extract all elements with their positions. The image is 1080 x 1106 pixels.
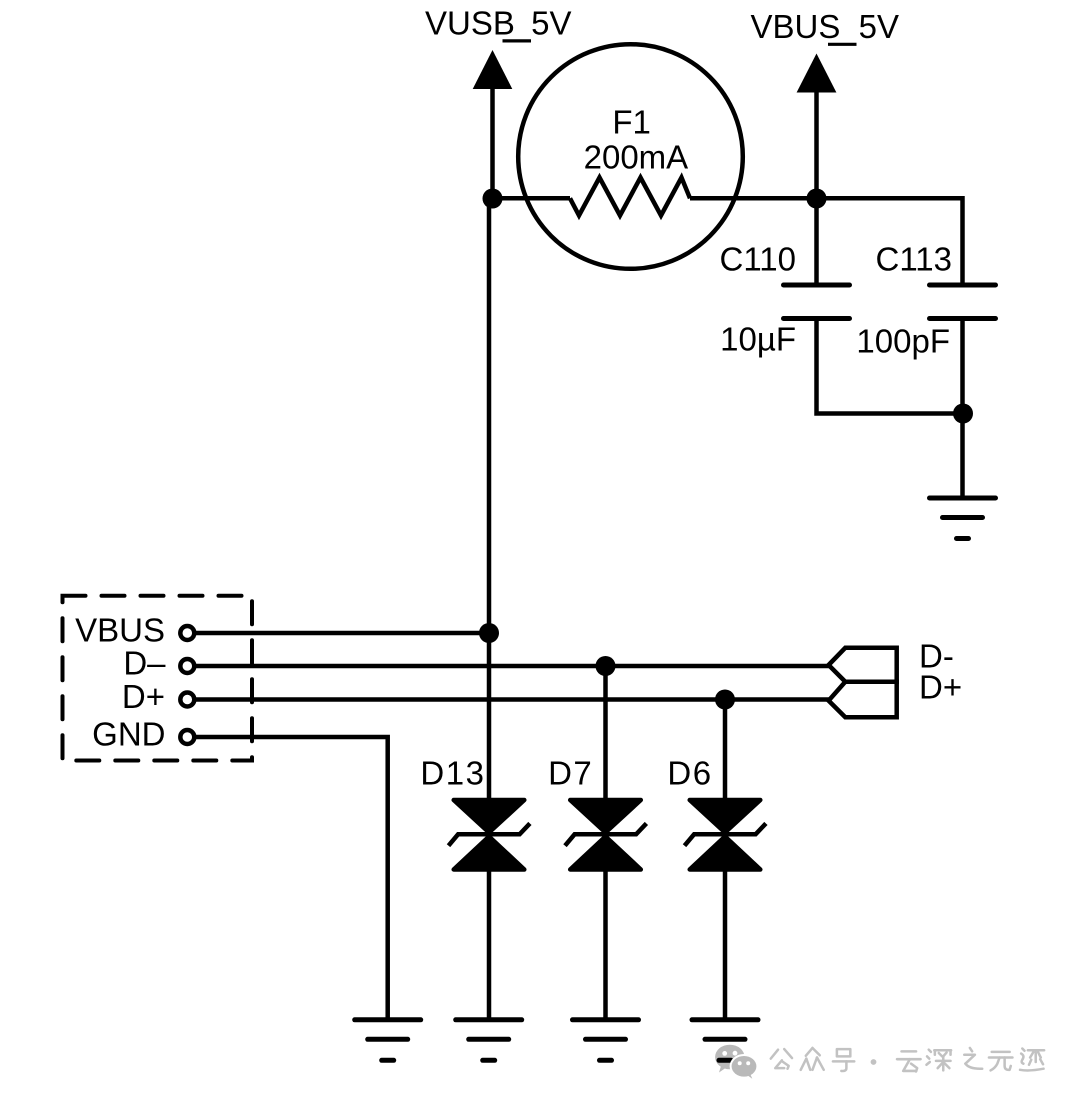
watermark text 公众号 · 云深之无迹 (drawn) [771, 1048, 1044, 1072]
svg-text:D7: D7 [548, 755, 593, 792]
wire D6 stem top [723, 700, 728, 801]
pin circle GND [180, 730, 194, 744]
svg-text:5V: 5V [859, 8, 899, 45]
wire C110 top stub [814, 199, 819, 286]
off-page connector D+ [829, 682, 897, 718]
off-page connector D- [829, 648, 897, 682]
svg-text:D6: D6 [667, 755, 712, 792]
ground D13 [456, 1020, 522, 1061]
wire C113 bottom stub [960, 319, 965, 500]
power arrow VUSB_5V [473, 50, 513, 199]
wire D7 stem bottom [603, 870, 608, 1021]
svg-text:C113: C113 [876, 241, 952, 278]
svg-text:D13: D13 [420, 755, 485, 792]
TVS diode D6 [685, 800, 766, 870]
net label VBUS_5V [751, 8, 900, 45]
wire rail right lead [690, 196, 963, 201]
junction dot C110/C113 bottom node [953, 404, 973, 424]
svg-text:C110: C110 [720, 241, 796, 278]
capacitor C110 [784, 285, 850, 319]
svg-text:VBUS: VBUS [75, 612, 165, 649]
ground under C113 [930, 498, 996, 539]
svg-text:VUSB: VUSB [425, 5, 515, 42]
wire D13 stem bottom [487, 870, 492, 1021]
svg-text:100pF: 100pF [856, 322, 950, 359]
pin circle D- [180, 659, 194, 673]
watermark wechat small bubble [730, 1054, 759, 1081]
ground D7 [573, 1020, 639, 1061]
connector dashed box [63, 596, 253, 761]
svg-text:5V: 5V [531, 5, 571, 42]
TVS diode D7 [565, 800, 646, 870]
capacitor C113 [930, 285, 996, 319]
wire D6 stem bottom [723, 870, 728, 1021]
net label VUSB_5V [425, 5, 572, 42]
wire D+ net [194, 697, 830, 702]
wire C110 bottom L-bend [817, 319, 964, 414]
wire C113 top stub [960, 196, 965, 285]
svg-text:D+: D+ [919, 669, 962, 706]
svg-text:GND: GND [92, 716, 165, 753]
svg-text:200mA: 200mA [584, 138, 689, 175]
power arrow VBUS_5V [797, 54, 837, 199]
junction dot D- / D7 [596, 656, 616, 676]
junction dot VBUS_5V rail [807, 189, 827, 209]
watermark wechat big bubble [715, 1045, 744, 1073]
junction dot VBUS node [479, 623, 499, 643]
svg-text:F1: F1 [612, 103, 651, 140]
junction dot VUSB rail [483, 189, 503, 209]
fuse F1 circle [518, 44, 743, 269]
svg-text:VBUS: VBUS [751, 8, 841, 45]
fuse F1 resistor zigzag [570, 178, 690, 216]
pin circle D+ [180, 693, 194, 707]
wire VBUS pin to main vertical [194, 631, 489, 636]
ground GND pin [355, 1020, 421, 1061]
wire GND pin L-bend [194, 737, 388, 1020]
ground D6 [692, 1020, 758, 1061]
svg-text:D+: D+ [122, 678, 165, 715]
svg-text:D–: D– [123, 645, 166, 682]
junction dot D+ / D6 [715, 690, 735, 710]
wire rail left lead [493, 196, 571, 201]
wire main vertical VUSB to D13 [487, 199, 492, 801]
TVS diode D13 [449, 800, 530, 870]
svg-text:10µF: 10µF [720, 320, 796, 357]
pin circle VBUS [180, 626, 194, 640]
wire D7 stem top [603, 666, 608, 800]
wire D- net [194, 664, 830, 669]
